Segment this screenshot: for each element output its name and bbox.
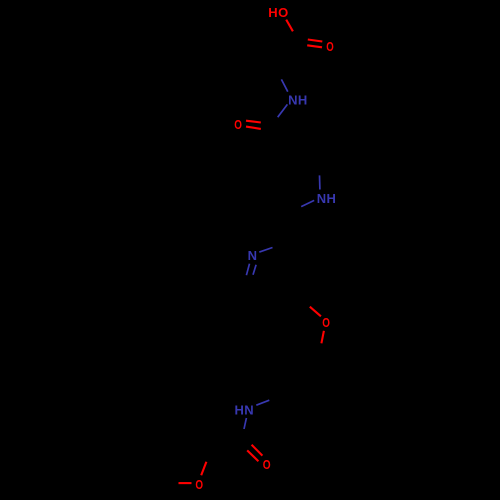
wire amide C=O double bond upper-right half (252, 445, 263, 456)
svg-text:O: O (322, 315, 330, 330)
svg-text:N: N (248, 248, 258, 263)
wire CH2-O bond half (chain down-left to methoxy O) (201, 462, 206, 476)
wire C=O double bond lower half (307, 45, 322, 47)
wire N=C double bond right half (253, 265, 256, 275)
wire amide C=O lower half (246, 127, 261, 129)
wire C-N bond half (alpha carbon to amide NH) (281, 79, 287, 91)
svg-text:NH: NH (317, 191, 337, 206)
wire C-N bond half (pyrrole C3 down to NH) (319, 175, 321, 189)
wire amide C=O upper half (246, 121, 261, 123)
svg-text:O: O (234, 117, 242, 132)
wire C-O bond half (ring carbon to ether O) (310, 307, 321, 317)
svg-text:O: O (326, 39, 334, 54)
wire N-C bond half (amide NH to carbonyl C) (278, 104, 288, 117)
wire C=O double bond upper half (308, 40, 323, 42)
wire N-C2 bond half (pyrrole NH to C2) (301, 200, 314, 206)
svg-text:HO: HO (268, 5, 288, 20)
svg-text:O: O (195, 477, 203, 492)
wire amide C=O double bond lower-left half (247, 450, 258, 461)
svg-text:HN: HN (235, 403, 255, 418)
svg-text:NH: NH (288, 93, 308, 108)
wire N=C double bond left half (246, 264, 249, 276)
wire N-C bond half (pyridine N up-right to C2) (259, 248, 272, 253)
wire N-C bond half (HN up-right to ring carbon) (256, 400, 269, 405)
wire O-C bond half (hydroxyl O to carboxyl C) (286, 20, 293, 32)
wire O-CH3 bond half (methoxy O to methyl) (179, 482, 192, 484)
svg-text:O: O (263, 457, 271, 472)
wire N-C bond half (HN down to carbonyl C) (244, 418, 246, 429)
wire O-C bond half (ether O down to chain) (321, 331, 324, 344)
